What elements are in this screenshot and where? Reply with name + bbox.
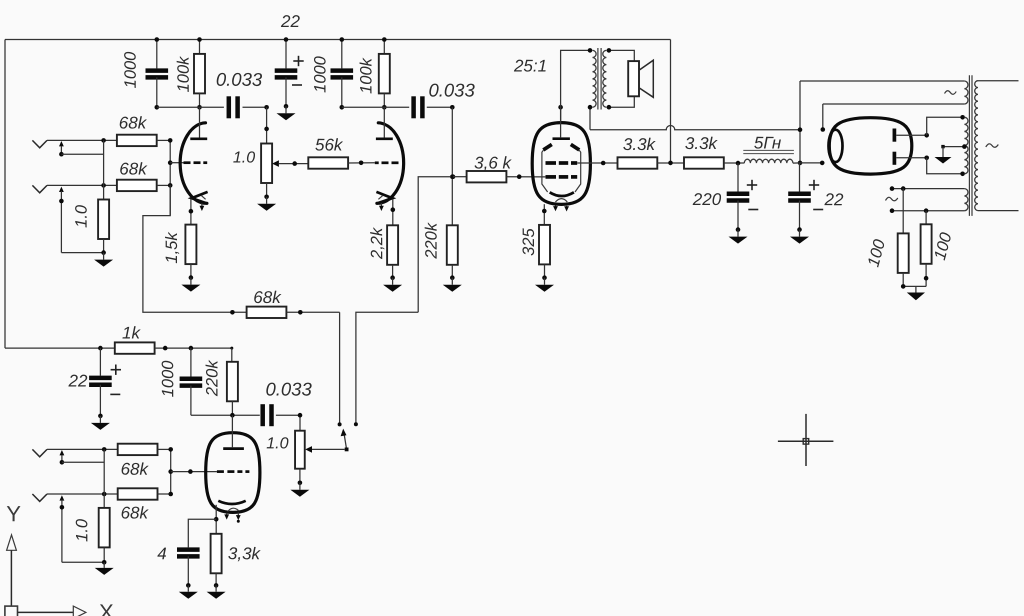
label 2,2k R9 — [368, 227, 386, 260]
svg-text:1000: 1000 — [311, 55, 329, 93]
tube V2 grid dashes — [375, 161, 399, 164]
ground below C3 — [277, 104, 296, 120]
tube V5 grid dashes — [217, 470, 250, 473]
label 1000 C9 — [159, 360, 177, 398]
node dot J1 tip — [101, 138, 106, 143]
wire C3 bottom lead — [285, 77, 287, 106]
tube V2 heater pin arrow — [379, 203, 384, 211]
ground below R6 — [181, 275, 200, 291]
label 68k R4 — [119, 159, 148, 178]
tube V4 filament cathode — [829, 130, 843, 162]
node dot after C5 — [450, 105, 455, 110]
wire C5 to V3 grid node — [427, 106, 453, 108]
node dot 3.6k left — [451, 174, 456, 179]
svg-text:0.033: 0.033 — [265, 378, 312, 399]
svg-text:3,3k: 3,3k — [228, 544, 262, 563]
label 22 C7 — [824, 190, 844, 209]
wire cathode bypass branch — [188, 519, 216, 547]
wire RP2 bottom lead — [299, 469, 301, 483]
resistor R15 100 hum — [898, 233, 909, 273]
ground below R23 — [207, 583, 226, 599]
svg-text:68k: 68k — [121, 503, 150, 522]
wire T1 primary bottom to B+ — [588, 105, 593, 130]
label 1k R18 — [122, 323, 141, 342]
capacitor C7 22uF — [788, 194, 811, 201]
wire C7 bottom lead — [799, 201, 801, 230]
inductor L1 5Gn choke — [744, 159, 793, 163]
label 68k R17 — [253, 288, 282, 307]
tube V1 cathode chevron — [192, 192, 208, 204]
svg-text:220k: 220k — [423, 222, 441, 260]
capacitor C8 22uF lead — [99, 348, 101, 376]
resistor R12 325 cathode — [539, 225, 550, 265]
wire R17 to switch contact — [286, 310, 339, 315]
tube V5 heater arc — [228, 508, 239, 511]
tube V2 anode — [376, 137, 393, 140]
wire 3.6k to V3 grid — [506, 174, 545, 179]
resistor R14 3.3k — [684, 157, 724, 168]
transformer T2 heater winding 6.3V — [964, 189, 968, 211]
pin arrow J1 sleeve — [59, 141, 104, 157]
svg-text:0.033: 0.033 — [428, 79, 475, 100]
wire RP2 wiper to switch — [312, 448, 345, 450]
svg-text:325: 325 — [520, 227, 538, 255]
tube V4 anode bar upper — [893, 129, 897, 142]
wire filament winding bottom lead — [823, 103, 965, 105]
tube V4 anode bar lower — [893, 152, 897, 165]
label ~ heater V4 — [945, 91, 957, 95]
wire V5 plate node — [191, 413, 260, 418]
svg-text:220k: 220k — [203, 360, 221, 398]
wire R10 bottom lead — [451, 265, 453, 278]
wire R9 bottom lead — [392, 265, 394, 278]
tube V3 envelope — [532, 123, 590, 205]
tube V3 anode — [553, 137, 570, 140]
ground below C11 — [179, 583, 198, 599]
wire V3 cathode lead — [542, 204, 547, 225]
ground below R5 — [94, 250, 113, 266]
label 100k R2 — [175, 56, 193, 93]
axis icon Y label — [6, 501, 21, 526]
resistor R17 68k mix — [247, 307, 287, 318]
wire V1 cathode lead — [189, 199, 194, 225]
wire C4 bottom lead — [341, 77, 343, 107]
axis icon X label — [99, 599, 114, 616]
ground below C6 — [729, 227, 748, 243]
transformer T1 primary winding — [593, 50, 597, 107]
resistor R7 56k — [308, 157, 348, 168]
wire T1 secondary top to speaker — [607, 48, 635, 61]
node dot after C2 — [264, 105, 269, 110]
tube V3 control grid dashes — [546, 175, 578, 179]
wire V5 grid bus vertical — [168, 447, 173, 496]
wire R23 bottom lead — [215, 573, 217, 585]
wire RP1 wiper to R7 — [279, 161, 308, 166]
wire heater lead bottom — [890, 208, 965, 213]
wire HV center tap — [941, 144, 966, 149]
wire J1 to R3 — [47, 139, 117, 141]
wire V1 anode lead — [199, 107, 201, 137]
wire J2 to R4 — [47, 184, 117, 186]
wire V2 plate node horizontal — [342, 106, 409, 108]
tube V1 grid dashes — [184, 161, 208, 164]
resistor R20 68k — [118, 444, 158, 455]
tube V3 heater pin arrows — [553, 206, 569, 212]
wire V5 cathode lead — [214, 505, 219, 534]
wire C8 bottom lead — [99, 385, 101, 416]
wire R6 bottom lead — [190, 264, 192, 278]
wire V5 anode lead — [231, 415, 233, 447]
node dot V5 grid — [168, 469, 173, 474]
wire V2 cathode lead — [391, 199, 396, 226]
label minus C7 — [813, 209, 823, 211]
svg-text:100k: 100k — [175, 56, 193, 93]
wire V1 grid bus vertical — [168, 138, 173, 216]
potentiometer RP1 1.0M — [261, 144, 279, 184]
svg-text:1000: 1000 — [122, 51, 140, 89]
svg-text:4: 4 — [157, 544, 167, 563]
wire C6 bottom lead — [737, 201, 739, 230]
wire C11 bottom lead — [187, 556, 189, 585]
wire V3 screen to R13 — [577, 162, 617, 164]
tube V3 heater arc — [555, 199, 567, 202]
node dot rail at R2 — [197, 37, 202, 42]
wire R19 bottom lead — [231, 401, 233, 415]
label 220k R10 — [423, 222, 441, 260]
label minus C8 — [110, 393, 120, 395]
resistor R8 100k lead top — [383, 40, 385, 54]
node dot rail at C3 — [284, 37, 289, 42]
node dot rail at C1 — [155, 37, 160, 42]
resistor R13 3.3k screen — [618, 157, 658, 168]
wire left border drop — [4, 40, 6, 349]
svg-text:25:1: 25:1 — [513, 56, 547, 75]
wire R5 bottom lead — [103, 239, 105, 253]
ground below R22 — [95, 560, 114, 575]
connector jack J3 — [32, 449, 47, 456]
wire R18 to plate node — [155, 346, 234, 351]
wire input junction vertical — [103, 140, 105, 199]
label 220k R19 — [203, 360, 221, 398]
svg-text:1.0: 1.0 — [73, 204, 91, 228]
pin arrow J2 sleeve — [59, 187, 104, 253]
wire R4 to grid vertical — [157, 184, 171, 186]
svg-text:1,5k: 1,5k — [163, 232, 181, 264]
label 0.033 C2 — [216, 69, 263, 90]
node dot screen node — [601, 161, 606, 166]
wire V3 grid node vertical — [451, 107, 453, 225]
label 56k R7 — [315, 135, 344, 154]
wire choke to node 800 — [793, 162, 800, 164]
capacitor C6 220uF — [727, 194, 750, 201]
capacitor C9 1000 lead — [190, 348, 192, 377]
capacitor C3 22uF electrolytic — [275, 71, 298, 78]
node dot V2 plate node at R8 — [382, 105, 387, 110]
label 1.0 R22 — [73, 518, 91, 542]
wire C9 bottom lead — [190, 386, 192, 416]
resistor R19 220k lead — [231, 348, 233, 362]
tube V1 envelope half-shell — [180, 123, 207, 204]
label 100k R8 — [357, 57, 375, 94]
wire hum balance join — [901, 264, 928, 289]
tube V3 beam plate right — [571, 144, 581, 192]
wire R14 to choke node — [724, 161, 745, 166]
wire V4 filament bottom lead — [800, 161, 825, 166]
ground below R9 — [383, 275, 402, 291]
label 25:1 T1 — [513, 56, 547, 75]
wire V4 lower anode to HV bottom — [896, 156, 965, 177]
node dot rail at C4 — [340, 37, 345, 42]
wire J4 to R21 — [47, 493, 118, 495]
resistor R11 3.6k — [467, 171, 507, 182]
svg-text:X: X — [99, 599, 114, 616]
resistor R19 220k — [227, 362, 238, 402]
wire R20 to grid bus — [158, 448, 171, 450]
svg-text:0.033: 0.033 — [216, 69, 263, 90]
svg-text:1000: 1000 — [159, 360, 177, 398]
resistor R9 2.2k cathode — [387, 225, 398, 264]
node dot J2 tip — [101, 183, 106, 188]
wire R7 to V2 grid — [348, 161, 375, 166]
resistor R23 3.3k cathode — [211, 534, 222, 574]
label 3.3k R14 — [685, 134, 719, 153]
tube V2 cathode chevron — [376, 192, 392, 204]
capacitor C5 0.033 coupling — [414, 96, 423, 118]
wire R13 to R14 — [657, 161, 684, 166]
label 4 C11 — [157, 544, 167, 563]
tube V3 cathode — [550, 192, 574, 196]
ground below C8 — [91, 414, 110, 430]
svg-text:1.0: 1.0 — [266, 435, 288, 452]
resistor R10 220k grid leak — [447, 225, 458, 264]
svg-text:68k: 68k — [119, 159, 148, 178]
svg-text:1.0: 1.0 — [233, 149, 255, 166]
svg-text:Y: Y — [6, 501, 21, 526]
svg-text:100k: 100k — [357, 57, 375, 94]
wire B+ line transformer primary to rectifier node (hop over vertical) — [590, 125, 800, 129]
cursor crosshair — [778, 414, 834, 466]
tube V1 anode — [190, 137, 207, 140]
node dot J3 tip — [102, 447, 107, 452]
resistor R22 1.0M grid leak — [99, 508, 110, 548]
label minus C6 — [748, 209, 758, 211]
transformer T2 core — [969, 75, 972, 216]
label 68k R3 — [119, 113, 148, 132]
tube V3 beam plate left — [542, 144, 552, 192]
axis icon Y arrow — [7, 535, 17, 606]
wire R21 to grid bus — [158, 493, 171, 495]
wire switch contact 2 riser to V3 grid node — [354, 312, 418, 426]
resistor R4 68k — [117, 180, 157, 191]
label 1.0 RP2 — [266, 435, 288, 452]
label 0.033 C5 — [428, 79, 475, 100]
capacitor C1 1000 — [146, 71, 169, 78]
wire R12 bottom lead — [544, 264, 546, 277]
speaker LS1 — [628, 60, 653, 97]
axis icon X arrow — [18, 606, 86, 616]
transformer T2 rectifier heater winding — [964, 81, 968, 104]
wire filament winding top lead to B+ — [800, 80, 964, 82]
svg-text:22: 22 — [824, 190, 844, 209]
svg-text:22: 22 — [280, 12, 300, 31]
label 68k R21 — [121, 503, 150, 522]
resistor R6 1.5k cathode — [185, 225, 196, 265]
wire C10 to volume pot — [276, 413, 302, 431]
resistor R2 100k lead top — [199, 40, 201, 54]
tube V2 envelope half-shell — [377, 123, 404, 204]
transformer T2 primary winding — [975, 81, 978, 211]
wire RP1 bottom lead — [266, 183, 268, 197]
tube V5 heater pin arrows — [224, 512, 240, 522]
wire R2 bottom lead — [199, 93, 201, 107]
wire T2 primary top lead — [978, 80, 1019, 82]
resistor R16 100 hum — [921, 224, 932, 263]
resistor R18 1k — [115, 342, 155, 353]
ground below RP1 — [257, 195, 276, 211]
wire C3 22uF top lead — [285, 40, 287, 69]
resistor R8 100k — [379, 54, 390, 94]
wire V1 plate node horizontal — [157, 106, 224, 108]
label ~ primary — [986, 144, 999, 147]
label 325 R12 — [520, 227, 538, 255]
ground hum balance — [907, 286, 925, 300]
label 1,5k R6 — [163, 232, 181, 264]
wire 1k input line — [5, 346, 115, 351]
wire rectifier filament supply vertical x=800 — [799, 81, 801, 163]
label 100 R15 — [864, 237, 889, 269]
wire 1000pF C1 top lead — [156, 40, 158, 69]
node dot plate node at C1 — [155, 105, 160, 110]
capacitor C10 0.033 coupling — [263, 404, 272, 426]
label 5Гн L1 — [754, 133, 782, 152]
label 1000 C4 — [311, 55, 329, 93]
node dot V3 grid node — [450, 174, 455, 179]
wire B+ rail top — [5, 39, 671, 41]
wire R8 bottom lead — [383, 93, 385, 107]
tube V3 screen grid dashes — [546, 161, 578, 165]
wire pot RP1 top lead — [264, 107, 269, 143]
connector jack J4 — [32, 494, 47, 501]
svg-text:1.0: 1.0 — [73, 518, 91, 542]
svg-text:2,2k: 2,2k — [368, 227, 386, 260]
svg-text:68k: 68k — [121, 460, 150, 479]
tube V1 heater tick — [202, 196, 206, 200]
label plus C8 — [111, 365, 121, 375]
transformer T1 secondary winding — [603, 50, 607, 107]
resistor R21 68k — [118, 488, 158, 499]
label 0.033 C10 — [265, 378, 312, 399]
inductor L1 core lines — [743, 150, 794, 153]
wire T1 secondary bottom to speaker — [607, 96, 635, 109]
tube V2 heater tick — [378, 196, 382, 200]
wire J3 to R20 — [47, 448, 118, 450]
label 22 C3 — [280, 12, 300, 31]
wire V1 grid entry — [170, 162, 183, 164]
wire phase feed corner to 3.6k — [418, 177, 453, 313]
pin arrow J4 sleeve — [60, 495, 105, 562]
node dot B+ at (800,129.7) — [798, 127, 803, 132]
wire R3 to grid vertical — [157, 139, 171, 141]
pin arrow J3 sleeve — [60, 450, 105, 465]
svg-text:22: 22 — [68, 371, 88, 390]
wire V5 grid entry — [171, 469, 217, 474]
svg-text:3,6 k: 3,6 k — [474, 153, 512, 172]
label 22 C8 — [68, 371, 88, 390]
svg-text:3.3k: 3.3k — [685, 134, 719, 153]
svg-text:3.3k: 3.3k — [623, 135, 657, 154]
resistor R5 1.0M grid leak — [98, 200, 109, 240]
label 1.0 RP1 — [233, 149, 255, 166]
node dot choke right (800,162.9) — [798, 161, 803, 166]
label 1000 C1 — [122, 51, 140, 89]
node dot rail at R8 — [382, 37, 387, 42]
wire switch contact 1 drop — [338, 312, 342, 426]
tube V1 heater pin arrow — [200, 203, 205, 211]
label plus C3 — [293, 56, 303, 66]
capacitor C6 220uF lead — [737, 163, 739, 191]
wire T2 primary bottom lead — [978, 210, 1019, 212]
label 3,6 k R11 — [474, 153, 512, 172]
transformer T1 core — [598, 48, 601, 110]
svg-text:56k: 56k — [315, 135, 344, 154]
wire V4 upper anode to HV top — [896, 115, 965, 138]
switch SA1 arm — [341, 429, 349, 452]
wire 3.6k left lead — [453, 176, 467, 178]
wire C1 bottom lead — [156, 77, 158, 107]
label 220 C6 — [692, 190, 722, 209]
wire 1000pF C4 top lead — [341, 40, 343, 69]
wire C2 to volume pot node — [243, 106, 267, 108]
capacitor C4 1000 — [331, 71, 354, 78]
ground below C7 — [790, 227, 809, 243]
wire B+ rail right drop to 3.3k junction — [670, 40, 672, 163]
svg-text:68k: 68k — [253, 288, 282, 307]
tube V5 envelope — [206, 433, 260, 513]
svg-text:5Гн: 5Гн — [754, 133, 782, 152]
node dot V3 anode lead — [558, 105, 563, 110]
capacitor C7 22uF lead — [799, 163, 801, 192]
connector jack J1 — [32, 140, 47, 147]
potentiometer RP2 1.0M — [295, 431, 312, 469]
ground below R10 — [443, 275, 462, 291]
wire R16 top lead — [925, 211, 927, 225]
node dot J4 tip — [102, 492, 107, 497]
ground below RP2 — [290, 481, 309, 497]
label 68k R20 — [121, 460, 150, 479]
resistor R3 68k — [117, 135, 157, 146]
wire R22 bottom lead — [103, 547, 105, 562]
wire V2 anode lead — [383, 107, 385, 137]
capacitor C11 4uF bypass — [177, 550, 200, 557]
label plus C6 — [747, 180, 757, 190]
capacitor C2 0.033 coupling — [229, 96, 238, 118]
ground HV center tap — [935, 147, 952, 164]
wire input junction vertical ch2 — [103, 449, 105, 508]
svg-text:68k: 68k — [119, 113, 148, 132]
capacitor C9 1000 — [180, 379, 203, 386]
tube V5 anode — [223, 447, 244, 450]
label 1.0 R5 — [73, 204, 91, 228]
node dot V2 plate node at C4 — [340, 105, 345, 110]
label 3.3k R13 — [623, 135, 657, 154]
wire V3 anode lead — [560, 107, 562, 137]
connector jack J2 — [32, 185, 47, 192]
label ~ heater — [886, 197, 898, 200]
wire T1 primary top to V3 anode — [561, 48, 593, 122]
label minus C3 — [292, 84, 302, 86]
wire R15 top lead — [902, 189, 904, 234]
svg-text:1k: 1k — [122, 323, 141, 342]
